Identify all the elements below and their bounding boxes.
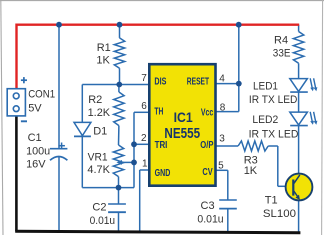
svg-text:IC1: IC1 xyxy=(174,109,193,125)
svg-text:16V: 16V xyxy=(26,159,46,171)
svg-text:1.2K: 1.2K xyxy=(88,107,111,119)
svg-text:SL100: SL100 xyxy=(263,208,296,220)
svg-text:RESET: RESET xyxy=(187,75,210,87)
svg-text:CV: CV xyxy=(202,166,212,178)
svg-text:GND: GND xyxy=(155,167,171,179)
svg-text:5V: 5V xyxy=(28,102,42,114)
svg-text:7: 7 xyxy=(141,73,147,84)
svg-text:4.7K: 4.7K xyxy=(87,164,110,176)
svg-text:0.01u: 0.01u xyxy=(197,213,223,225)
svg-text:VR1: VR1 xyxy=(88,151,108,163)
svg-text:C2: C2 xyxy=(92,202,106,214)
svg-text:O/P: O/P xyxy=(200,139,213,151)
svg-text:1: 1 xyxy=(142,158,148,169)
svg-text:T1: T1 xyxy=(265,195,278,207)
svg-text:CON1: CON1 xyxy=(28,89,55,101)
svg-text:R1: R1 xyxy=(97,42,111,54)
svg-text:100u: 100u xyxy=(26,146,50,158)
svg-text:C1: C1 xyxy=(28,132,42,144)
svg-text:LED1: LED1 xyxy=(253,80,278,92)
svg-text:Vcc: Vcc xyxy=(201,107,214,119)
svg-text:1K: 1K xyxy=(96,55,110,67)
svg-text:TH: TH xyxy=(154,105,163,117)
svg-text:LED2: LED2 xyxy=(252,114,278,126)
svg-text:8: 8 xyxy=(220,103,226,114)
svg-text:IR TX LED: IR TX LED xyxy=(249,128,299,140)
svg-text:D1: D1 xyxy=(93,126,107,138)
svg-text:0.01u: 0.01u xyxy=(90,215,116,227)
svg-text:DIS: DIS xyxy=(154,75,166,87)
svg-text:R4: R4 xyxy=(274,34,288,46)
svg-text:IR TX LED: IR TX LED xyxy=(249,94,298,106)
svg-text:5: 5 xyxy=(218,160,224,171)
svg-text:NE555: NE555 xyxy=(164,126,200,142)
svg-text:R2: R2 xyxy=(88,94,102,106)
svg-text:33E: 33E xyxy=(273,47,291,59)
svg-text:4: 4 xyxy=(219,73,225,84)
svg-text:C3: C3 xyxy=(201,200,215,212)
svg-text:6: 6 xyxy=(141,101,147,112)
svg-text:1K: 1K xyxy=(244,165,258,177)
svg-text:2: 2 xyxy=(141,133,147,144)
svg-text:3: 3 xyxy=(219,134,225,145)
